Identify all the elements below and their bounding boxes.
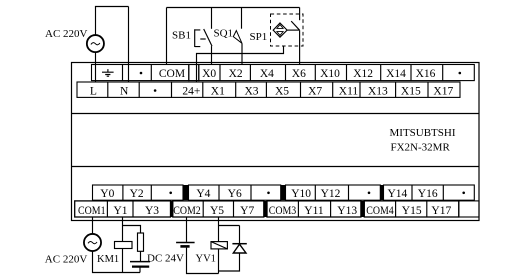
- limit switch SQ1 blade wedge: [233, 31, 242, 44]
- pressure switch SP1 dashed enclosure: [271, 14, 304, 46]
- svg-text:Y3: Y3: [145, 205, 159, 217]
- svg-text:X14: X14: [386, 68, 406, 80]
- svg-text:X17: X17: [433, 86, 453, 98]
- svg-text:X2: X2: [229, 68, 243, 80]
- svg-text:Y2: Y2: [130, 188, 144, 200]
- PLC main body outline: [72, 63, 480, 221]
- row3 dot terminals: [169, 192, 465, 195]
- wire COM2 to DC battery: [186, 217, 188, 242]
- terminal row 4 group 2: [173, 201, 264, 217]
- row3 terminal labels: [100, 188, 438, 200]
- svg-text:SQ1: SQ1: [214, 28, 234, 40]
- svg-text:KM1: KM1: [97, 254, 119, 265]
- terminal row 4 group 4: [364, 201, 459, 217]
- pushbutton SB1 actuator bracket: [195, 29, 201, 47]
- wire diode top: [239, 226, 241, 244]
- svg-text:Y11: Y11: [304, 205, 324, 217]
- PLC upper internal divider: [72, 113, 480, 115]
- svg-text:X1: X1: [211, 86, 225, 98]
- terminal row 1 right block: [199, 65, 475, 81]
- AC source G1 circle (top): [87, 35, 104, 52]
- svg-text:Y13: Y13: [337, 205, 357, 217]
- svg-text:X13: X13: [368, 86, 388, 98]
- terminal row 3 group 4: [384, 185, 475, 200]
- input common bus wire (top): [167, 7, 300, 9]
- wire capacitor to bottom rail: [139, 267, 141, 273]
- svg-text:COM4: COM4: [366, 205, 394, 217]
- wire KM1 coil to bottom rail: [122, 249, 124, 273]
- pressure switch SP1 up arrowhead: [277, 25, 283, 29]
- svg-text:X0: X0: [202, 68, 216, 80]
- solenoid valve coil YV1: [211, 242, 227, 249]
- wire SQ1 to X2 terminal: [241, 43, 243, 65]
- svg-text:COM1: COM1: [78, 205, 106, 217]
- svg-text:Y17: Y17: [431, 205, 451, 217]
- svg-text:FX2N-32MR: FX2N-32MR: [391, 141, 451, 153]
- wire YV1 to bottom rail: [218, 249, 220, 274]
- battery DC 24V negative plate: [180, 245, 189, 248]
- battery DC 24V positive plate: [176, 242, 195, 244]
- terminal row 3 group 3: [286, 185, 381, 200]
- svg-text:X6: X6: [292, 68, 306, 80]
- wire diode bottom to YV1 bottom: [219, 253, 240, 271]
- terminal row 3 group 1: [93, 185, 184, 200]
- terminal row 4 group 3: [267, 201, 361, 217]
- terminal row 3 separator bar 3: [380, 185, 383, 200]
- wire snubber branch from Y1: [123, 226, 141, 234]
- wire bus to COM terminal: [166, 8, 168, 66]
- pressure switch SP1 actuator link: [287, 29, 299, 31]
- AC source G2 circle (bottom): [84, 234, 101, 251]
- wire bus to SB1 top contact: [211, 8, 213, 29]
- svg-text:AC 220V: AC 220V: [45, 254, 88, 266]
- svg-text:Y16: Y16: [418, 188, 438, 200]
- svg-text:Y10: Y10: [291, 188, 311, 200]
- pressure switch SP1 down arrowhead: [277, 32, 283, 36]
- wire resistor to capacitor: [140, 251, 142, 261]
- terminal row 2 right block: [172, 82, 461, 97]
- svg-text:Y5: Y5: [210, 205, 224, 217]
- wire bus to SQ1 top contact: [241, 8, 243, 29]
- svg-text:COM2: COM2: [173, 205, 201, 217]
- svg-text:X15: X15: [401, 86, 421, 98]
- row1 terminal labels: [159, 68, 436, 80]
- wire bus corner to SP1 top contact: [299, 8, 301, 21]
- svg-text:COM: COM: [159, 68, 185, 80]
- svg-text:X4: X4: [260, 68, 274, 80]
- solenoid YV1 diagonal: [211, 242, 227, 249]
- ground terminal symbol: [102, 69, 114, 76]
- capacitor C bottom plate: [132, 266, 149, 268]
- terminal row 4 empty end cell: [459, 201, 479, 217]
- resistor R snubber body: [138, 233, 144, 251]
- terminal row 3 group 2: [189, 185, 281, 200]
- svg-text:Y6: Y6: [228, 188, 242, 200]
- diode VD cathode bar: [232, 243, 246, 245]
- svg-text:SP1: SP1: [250, 31, 268, 43]
- svg-text:X12: X12: [353, 68, 373, 80]
- svg-text:X11: X11: [339, 86, 359, 98]
- wire top AC source loop to N terminal: [95, 7, 129, 83]
- svg-text:X5: X5: [275, 86, 289, 98]
- terminal row 3 separator bar 2: [281, 185, 286, 200]
- svg-text:Y1: Y1: [113, 205, 127, 217]
- terminal row 4 separator bar 1: [171, 201, 173, 217]
- pushbutton SB1 blade: [204, 29, 212, 46]
- AC source G1 sine symbol: [91, 43, 100, 45]
- contactor coil KM1: [115, 242, 133, 249]
- svg-text:24+: 24+: [182, 86, 200, 98]
- svg-text:Y0: Y0: [100, 188, 114, 200]
- wire COM1 to bottom AC source: [92, 217, 94, 234]
- svg-text:Y4: Y4: [196, 188, 210, 200]
- wire AC source bottom to L terminal: [95, 52, 97, 82]
- svg-text:Y14: Y14: [387, 188, 407, 200]
- svg-text:MITSUBTSHI: MITSUBTSHI: [390, 127, 456, 139]
- svg-text:L: L: [90, 86, 97, 98]
- svg-text:Y7: Y7: [240, 205, 254, 217]
- PLC lower internal divider: [72, 166, 480, 168]
- row4 terminal labels: [78, 205, 451, 217]
- pressure switch SP1 blade: [291, 21, 299, 30]
- svg-text:AC 220V: AC 220V: [45, 28, 88, 40]
- wire SP1 to X6 terminal: [299, 30, 301, 65]
- svg-text:YV1: YV1: [196, 254, 216, 265]
- terminal row 4 separator bar 2: [264, 201, 267, 217]
- wire AC source G2 to bottom rail: [93, 251, 141, 272]
- wire SB1 to X0 terminal: [211, 46, 213, 65]
- terminal row 4 group 1: [75, 201, 171, 217]
- pushbutton SB1 actuator rod: [200, 38, 205, 40]
- svg-text:SB1: SB1: [172, 30, 191, 42]
- terminal row 3 separator bar 1: [183, 185, 189, 200]
- row2 dot terminal: [154, 89, 157, 92]
- svg-text:X3: X3: [244, 86, 258, 98]
- terminal row 1 spacer cell: [189, 65, 199, 81]
- row1 dot terminals: [140, 72, 461, 75]
- diode VD triangle: [233, 244, 246, 253]
- wire Y1 to KM1 coil: [122, 217, 124, 242]
- wire SP1 box to 24+ feeder: [197, 46, 284, 82]
- svg-text:N: N: [120, 86, 129, 98]
- capacitor C top plate: [130, 261, 150, 263]
- terminal row 2 left block: [77, 82, 172, 97]
- svg-text:COM3: COM3: [269, 205, 297, 217]
- row2 terminal labels: [90, 86, 454, 98]
- svg-text:DC 24V: DC 24V: [147, 253, 184, 265]
- pressure switch SP1 diamond sensor: [273, 23, 287, 37]
- terminal row 1 left block: [92, 65, 189, 81]
- wire battery to bottom rail: [187, 248, 219, 274]
- AC source G2 sine symbol: [88, 242, 97, 244]
- svg-text:X10: X10: [320, 68, 340, 80]
- wire Y5 to YV1 branch: [218, 217, 220, 242]
- svg-text:X7: X7: [308, 86, 322, 98]
- svg-text:Y15: Y15: [402, 205, 422, 217]
- svg-text:Y12: Y12: [321, 188, 341, 200]
- svg-text:X16: X16: [416, 68, 436, 80]
- wire YV1 branch to diode branch: [219, 225, 240, 227]
- terminal row 4 separator bar 3: [361, 201, 364, 217]
